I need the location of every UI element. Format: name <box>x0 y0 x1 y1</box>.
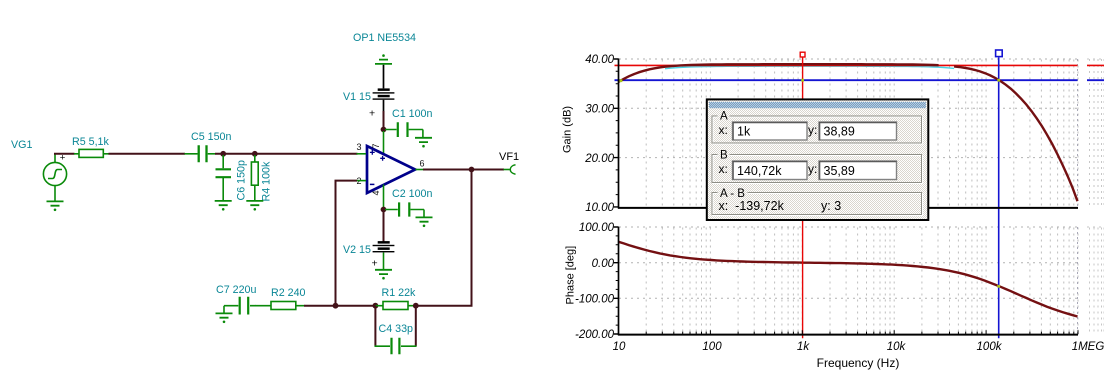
wire R1 right to output branch <box>416 305 473 307</box>
svg-text:7: 7 <box>371 143 381 148</box>
pin 4 wire <box>383 185 385 210</box>
frequency axis labels <box>613 341 1104 353</box>
svg-text:Frequency (Hz): Frequency (Hz) <box>817 356 900 370</box>
svg-text:1k: 1k <box>797 341 810 353</box>
gain y-axis <box>618 59 620 209</box>
op-amp supply plus mark <box>380 156 385 161</box>
svg-text:R1 22k: R1 22k <box>382 287 417 299</box>
op-amp input plus mark <box>370 150 375 155</box>
cursor info panel <box>707 99 929 220</box>
gain axis ticks <box>614 59 619 207</box>
svg-text:30.00: 30.00 <box>585 104 614 116</box>
capacitor C6 <box>216 155 232 201</box>
svg-text:6: 6 <box>420 159 425 169</box>
panel title bar <box>709 102 926 108</box>
svg-text:40.00: 40.00 <box>585 54 614 66</box>
svg-text:x:: x: <box>719 123 728 137</box>
gain curve after knee <box>954 66 1077 201</box>
cursor B vertical line (blue) <box>998 58 1000 339</box>
ground of V1 (top, inverted) <box>375 54 392 64</box>
svg-text:+: + <box>372 258 378 270</box>
gain plot horizontal gridlines <box>619 59 1078 158</box>
svg-text:1k: 1k <box>737 125 751 139</box>
input field A x <box>733 122 808 140</box>
svg-text:V2 15: V2 15 <box>343 244 371 256</box>
group box A <box>713 117 923 144</box>
background window strip gridlines <box>1090 59 1104 334</box>
capacitor C4 <box>375 338 417 355</box>
node pin4 supply <box>381 207 387 213</box>
svg-text:Phase [deg]: Phase [deg] <box>565 246 577 305</box>
op-amp minus mark <box>370 183 375 185</box>
pin 6 stub <box>416 169 424 171</box>
node C6 junction <box>220 151 226 157</box>
phase axis ticks <box>614 227 619 334</box>
node pin7 supply <box>381 127 387 133</box>
ground of C6 <box>215 201 232 211</box>
ground of C2 <box>416 217 433 227</box>
wire feedback node to R1 <box>336 305 377 307</box>
svg-text:10: 10 <box>613 341 626 353</box>
wire VG1 to R5 <box>54 153 75 155</box>
svg-text:V1 15: V1 15 <box>343 91 371 103</box>
wire pin 2 to feedback node <box>336 181 358 306</box>
phase plot vertical gridlines <box>646 228 1078 334</box>
svg-text:VG1: VG1 <box>11 139 32 151</box>
svg-text:C7 220u: C7 220u <box>216 284 256 296</box>
svg-text:VF1: VF1 <box>499 151 519 163</box>
phase y labels <box>575 222 615 341</box>
svg-text:C6 150p: C6 150p <box>236 160 248 200</box>
svg-text:y:: y: <box>808 162 817 176</box>
gain curve <box>619 64 939 82</box>
svg-text:B: B <box>720 150 728 162</box>
svg-text:3: 3 <box>357 142 362 152</box>
cursor B top marker <box>996 50 1003 57</box>
svg-text:A: A <box>720 111 728 123</box>
wire C5 to op-amp pin 3 <box>215 153 358 155</box>
svg-text:100.00: 100.00 <box>579 222 615 234</box>
svg-text:0.00: 0.00 <box>592 258 615 270</box>
svg-text:C4 33p: C4 33p <box>379 323 414 335</box>
svg-text:-100.00: -100.00 <box>575 294 615 306</box>
svg-text:C1 100n: C1 100n <box>392 108 432 120</box>
gain x-axis <box>618 207 1078 209</box>
resistor R1 <box>375 302 415 310</box>
battery V1 <box>373 65 395 112</box>
svg-text:1MEG: 1MEG <box>1072 341 1104 353</box>
svg-text:y:: y: <box>808 123 817 137</box>
capacitor C4 legs <box>375 306 415 347</box>
svg-text:x: -139,72k: x: -139,72k <box>719 199 785 213</box>
svg-text:y: 3: y: 3 <box>821 199 841 213</box>
capacitor C7 <box>224 297 256 315</box>
svg-text:R5 5,1k: R5 5,1k <box>72 136 109 148</box>
resistor R5 <box>74 149 109 157</box>
svg-text:10.00: 10.00 <box>585 202 614 214</box>
group box B <box>713 156 923 184</box>
wire pin 7 <box>383 131 385 154</box>
svg-text:R2 240: R2 240 <box>271 287 306 299</box>
capacitor C1 <box>385 122 423 137</box>
capacitor C2 <box>385 202 424 217</box>
resistor R2 <box>256 302 305 310</box>
cursor A horizontal line (red) <box>615 64 1104 66</box>
svg-text:20.00: 20.00 <box>584 153 614 165</box>
output pin VF1 symbol <box>510 165 515 174</box>
gain right border gridline <box>1077 59 1079 207</box>
svg-text:35,89: 35,89 <box>824 164 855 178</box>
svg-text:+: + <box>369 108 375 120</box>
capacitor C5 <box>185 145 216 162</box>
phase y-axis <box>618 227 620 336</box>
svg-text:x:: x: <box>719 162 728 176</box>
node R1 left <box>373 303 379 309</box>
phase plot horizontal gridlines <box>619 227 1078 298</box>
svg-text:Gain (dB): Gain (dB) <box>562 106 574 153</box>
battery V2 <box>373 241 395 270</box>
phase curve <box>619 242 1078 317</box>
svg-text:100k: 100k <box>977 341 1003 353</box>
svg-text:140,72k: 140,72k <box>737 164 782 178</box>
ground of VG1 <box>47 201 64 211</box>
wire output <box>423 169 504 171</box>
pin 2 stub <box>357 180 367 182</box>
ground of C1 <box>415 138 432 148</box>
input field B y <box>819 161 897 180</box>
phase x-axis ticks <box>646 330 1078 334</box>
svg-text:-200.00: -200.00 <box>575 329 615 341</box>
wire R5 to C5 <box>109 153 186 155</box>
node R4 junction <box>252 151 258 157</box>
op-amp OP1 <box>367 146 415 193</box>
cursor B horizontal line (blue) <box>615 79 1104 81</box>
gain y labels <box>584 54 614 214</box>
node output <box>469 167 475 173</box>
svg-text:10k: 10k <box>887 341 907 353</box>
cursor intersection markers <box>620 79 1001 288</box>
svg-text:C5 150n: C5 150n <box>191 131 231 143</box>
phase x-axis <box>618 334 1078 336</box>
ground of C7 <box>216 313 233 323</box>
voltage source VG1 <box>43 154 66 201</box>
svg-text:C2 100n: C2 100n <box>392 188 432 200</box>
ground of R4 <box>246 201 263 211</box>
svg-text:OP1 NE5534: OP1 NE5534 <box>353 32 416 44</box>
svg-text:100: 100 <box>702 341 722 353</box>
group box A-B <box>713 194 923 216</box>
wire output to feedback <box>471 170 473 306</box>
cursor A vertical line (red) <box>802 58 804 339</box>
node R1 right <box>413 303 419 309</box>
pin 3 stub <box>357 153 367 155</box>
output pin stub <box>504 169 512 171</box>
wire V1 to supply node <box>383 111 385 130</box>
gain curve companion (cyan) <box>665 66 954 69</box>
gain plot vertical gridlines <box>646 60 1078 207</box>
svg-text:R4 100k: R4 100k <box>261 161 273 201</box>
svg-text:38,89: 38,89 <box>824 125 855 139</box>
svg-text:4: 4 <box>371 190 381 195</box>
phase right border gridline <box>1077 227 1079 334</box>
input field B x <box>733 161 808 180</box>
ground of V2 <box>375 270 392 280</box>
resistor R4 <box>251 155 258 201</box>
wire R2 to feedback node <box>304 305 336 307</box>
node feedback left <box>333 303 339 309</box>
cursor A top marker <box>800 52 805 57</box>
wire supply node to V2 <box>383 211 385 242</box>
input field A y <box>819 122 897 140</box>
